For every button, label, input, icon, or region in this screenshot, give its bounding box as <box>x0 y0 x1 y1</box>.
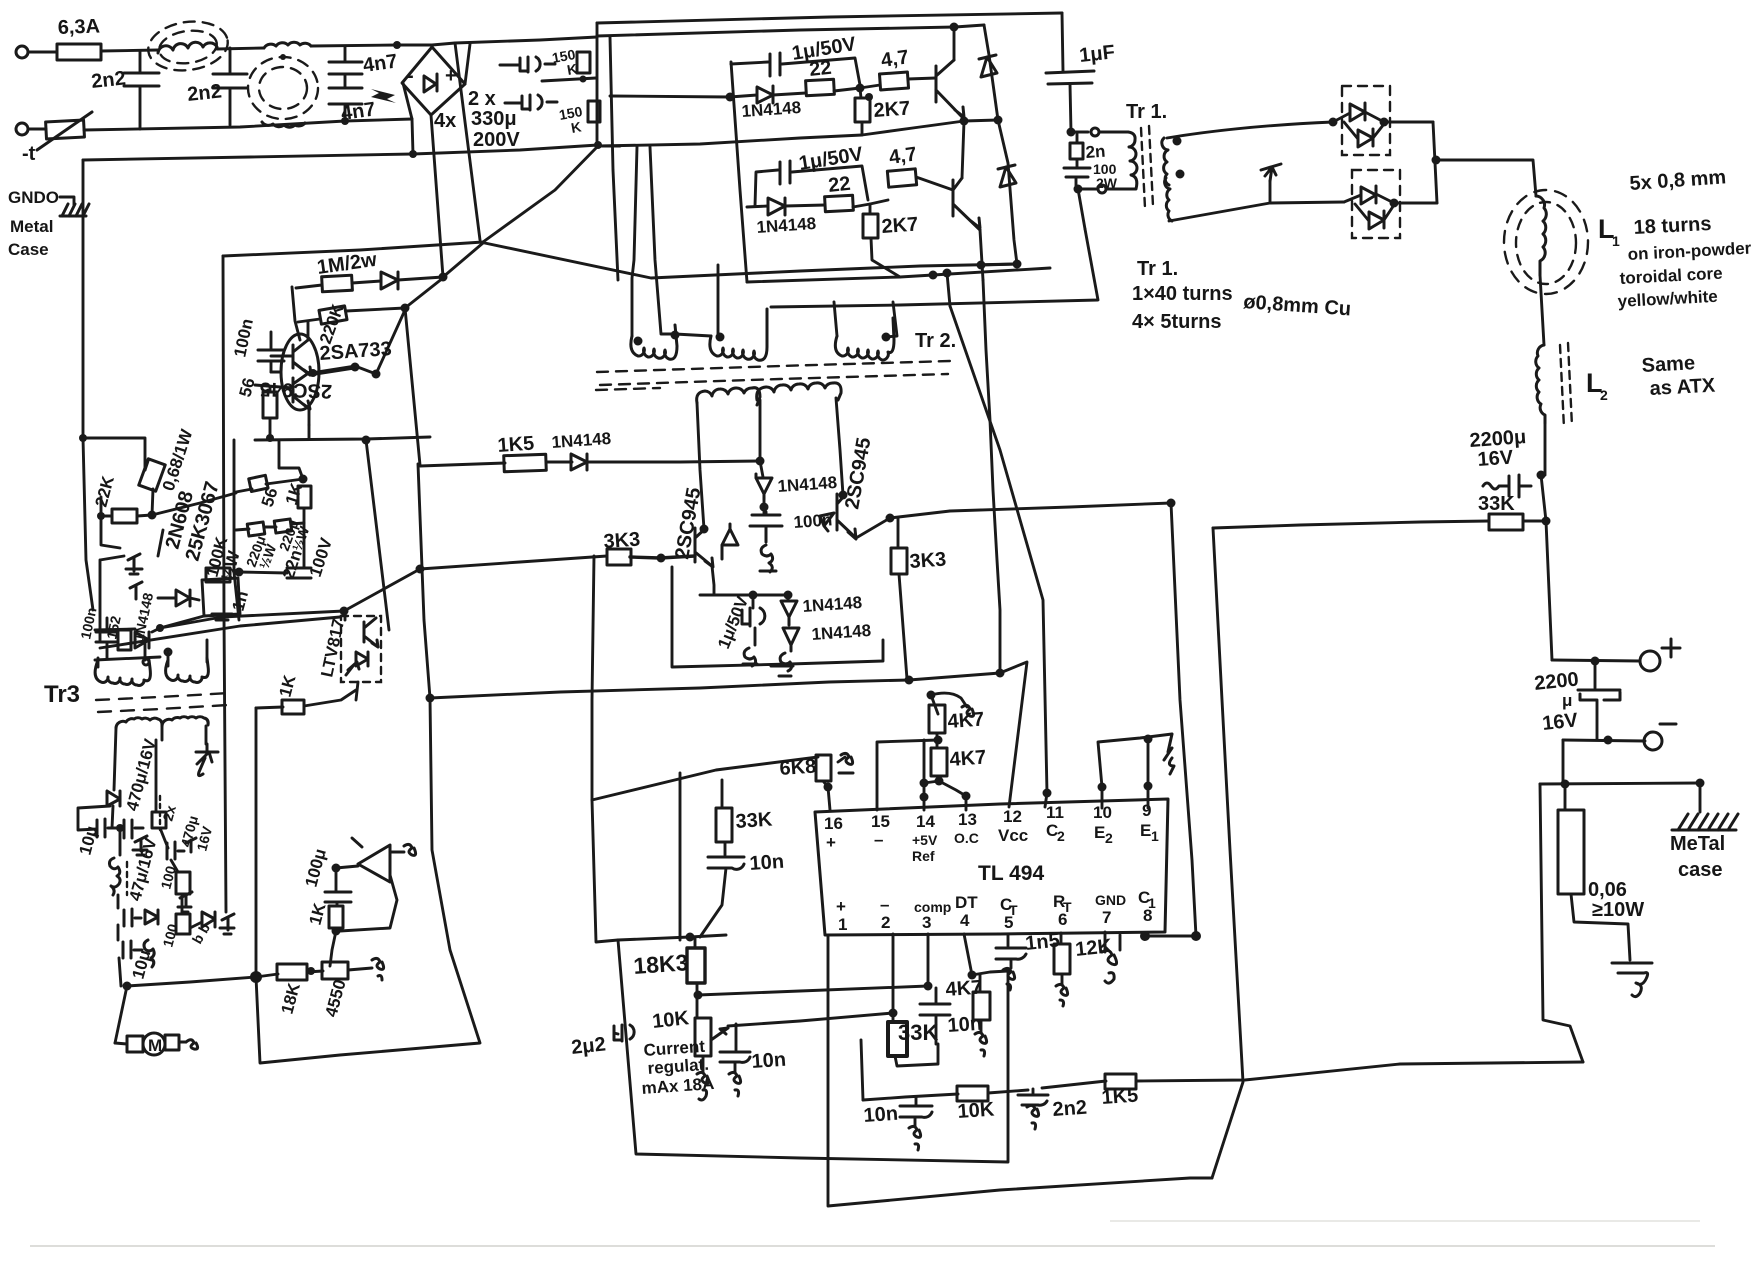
svg-text:Tr3: Tr3 <box>44 681 80 708</box>
svg-text:E: E <box>1094 823 1105 842</box>
svg-text:2n2: 2n2 <box>1052 1097 1088 1121</box>
svg-text:2200: 2200 <box>1533 668 1580 695</box>
svg-text:10n: 10n <box>751 1049 787 1073</box>
svg-text:14: 14 <box>916 812 935 831</box>
svg-text:33K: 33K <box>898 1020 938 1045</box>
svg-text:≥10W: ≥10W <box>1592 899 1644 921</box>
svg-text:2K7: 2K7 <box>881 213 919 238</box>
svg-text:10n: 10n <box>749 851 785 875</box>
svg-text:7: 7 <box>1102 908 1111 927</box>
svg-text:12: 12 <box>1003 807 1022 826</box>
svg-text:+5V: +5V <box>912 832 938 848</box>
svg-text:-: - <box>407 65 414 87</box>
svg-text:4x: 4x <box>434 110 456 132</box>
svg-text:1: 1 <box>1612 233 1620 249</box>
svg-text:MeTal: MeTal <box>1670 833 1725 855</box>
svg-text:8: 8 <box>1143 906 1152 925</box>
svg-text:4× 5turns: 4× 5turns <box>1132 311 1221 333</box>
svg-text:5: 5 <box>1004 913 1013 932</box>
svg-text:15: 15 <box>871 812 890 831</box>
svg-text:10n: 10n <box>863 1103 899 1127</box>
svg-text:Ref: Ref <box>912 848 935 864</box>
svg-text:O.C: O.C <box>954 830 979 846</box>
svg-text:+: + <box>826 833 836 852</box>
svg-text:1×40 turns: 1×40 turns <box>1132 283 1233 305</box>
svg-text:4K7: 4K7 <box>945 976 983 1001</box>
svg-text:2n2: 2n2 <box>186 80 223 105</box>
svg-text:Metal: Metal <box>10 217 53 236</box>
svg-text:330μ: 330μ <box>471 108 517 130</box>
svg-text:Tr 1.: Tr 1. <box>1126 101 1167 123</box>
svg-text:1K5: 1K5 <box>1101 1084 1139 1109</box>
svg-text:case: case <box>1678 859 1723 881</box>
svg-text:16: 16 <box>824 814 843 833</box>
svg-text:10K: 10K <box>651 1007 690 1033</box>
svg-text:6K8: 6K8 <box>779 755 817 780</box>
svg-text:33K: 33K <box>1478 493 1515 515</box>
svg-text:2 x: 2 x <box>468 88 496 110</box>
svg-text:10K: 10K <box>957 1098 996 1123</box>
svg-text:as ATX: as ATX <box>1649 375 1716 400</box>
svg-text:12K: 12K <box>1074 935 1113 961</box>
svg-text:E: E <box>1140 821 1151 840</box>
svg-text:2: 2 <box>1057 828 1065 844</box>
svg-text:comp: comp <box>914 899 951 915</box>
svg-text:Same: Same <box>1641 352 1695 377</box>
svg-text:4,7: 4,7 <box>880 46 911 72</box>
svg-text:18 turns: 18 turns <box>1633 213 1712 239</box>
svg-text:4K7: 4K7 <box>947 708 985 733</box>
svg-text:6,3A: 6,3A <box>57 16 100 39</box>
svg-text:2: 2 <box>1105 830 1113 846</box>
svg-text:–: – <box>880 895 889 914</box>
svg-text:Case: Case <box>8 240 49 259</box>
svg-text:2μ2: 2μ2 <box>570 1033 607 1058</box>
svg-text:3: 3 <box>922 913 931 932</box>
svg-text:1: 1 <box>838 915 847 934</box>
svg-text:GNDO: GNDO <box>8 188 59 207</box>
svg-text:4: 4 <box>960 911 970 930</box>
svg-text:22: 22 <box>808 57 832 81</box>
svg-text:2n2: 2n2 <box>90 67 127 92</box>
svg-text:4K7: 4K7 <box>949 746 987 771</box>
svg-text:2n: 2n <box>1085 142 1106 162</box>
svg-text:+: + <box>836 897 846 916</box>
svg-text:Tr 2.: Tr 2. <box>915 330 956 352</box>
svg-text:2: 2 <box>1600 387 1608 403</box>
svg-text:GND: GND <box>1095 892 1126 908</box>
svg-text:1: 1 <box>1151 828 1159 844</box>
svg-text:16V: 16V <box>1477 447 1515 471</box>
svg-text:2K7: 2K7 <box>873 97 911 122</box>
svg-text:μ: μ <box>1562 691 1572 710</box>
svg-text:Tr 1.: Tr 1. <box>1137 258 1178 280</box>
svg-text:4,7: 4,7 <box>888 143 919 169</box>
svg-text:200V: 200V <box>473 129 520 151</box>
svg-text:2: 2 <box>881 913 890 932</box>
svg-text:13: 13 <box>958 810 977 829</box>
svg-text:M: M <box>148 1036 162 1055</box>
svg-text:DT: DT <box>955 893 978 912</box>
svg-text:0,06: 0,06 <box>1588 879 1627 901</box>
svg-text:18K3: 18K3 <box>633 949 690 979</box>
svg-text:1μF: 1μF <box>1078 41 1116 67</box>
svg-text:1K5: 1K5 <box>497 432 535 457</box>
svg-text:3K3: 3K3 <box>909 548 947 573</box>
svg-text:-t: -t <box>22 143 36 165</box>
svg-text:16V: 16V <box>1541 709 1579 735</box>
svg-text:–: – <box>874 830 883 849</box>
svg-text:+: + <box>445 65 457 87</box>
svg-text:6: 6 <box>1058 910 1067 929</box>
svg-text:22: 22 <box>827 173 851 197</box>
svg-text:33K: 33K <box>735 808 774 833</box>
svg-text:TL 494: TL 494 <box>978 862 1044 885</box>
svg-text:Vcc: Vcc <box>998 826 1028 845</box>
svg-text:11: 11 <box>1046 803 1064 822</box>
